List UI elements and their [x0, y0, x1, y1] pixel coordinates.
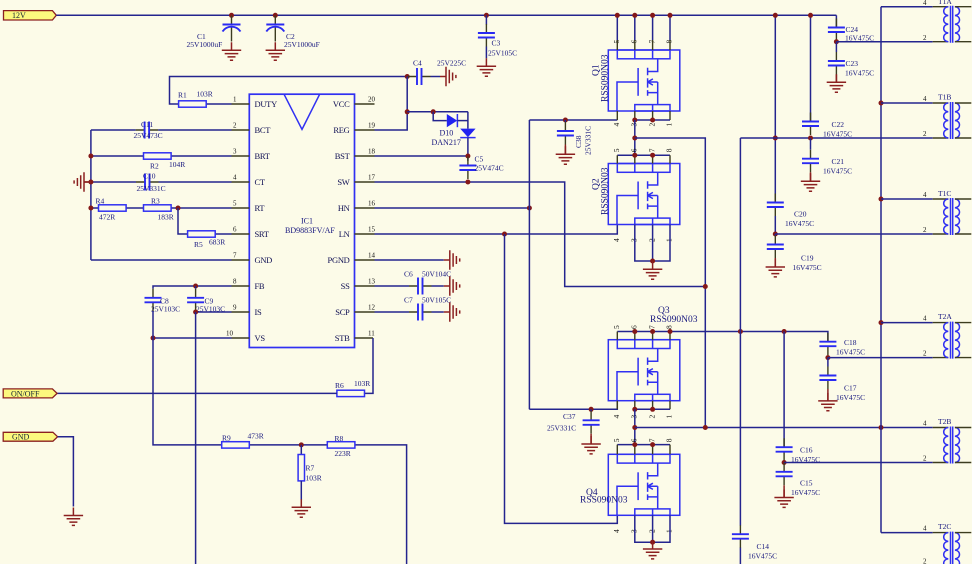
svg-text:18: 18 [368, 148, 376, 156]
svg-text:R3: R3 [151, 197, 160, 206]
svg-text:2: 2 [923, 130, 927, 138]
node Q3 pin2 [650, 407, 655, 412]
node SW/C5 [465, 180, 470, 185]
wire C14 bus column [739, 138, 741, 564]
svg-text:14: 14 [368, 252, 376, 260]
node VS/C8 [151, 336, 156, 341]
svg-text:R1: R1 [178, 91, 187, 100]
svg-text:6: 6 [630, 438, 639, 442]
svg-text:3: 3 [630, 238, 639, 242]
transformer T2C [933, 532, 972, 564]
capacitor C21 [810, 138, 812, 150]
ground CT left [74, 172, 90, 191]
svg-text:17: 17 [368, 174, 376, 182]
wire T1C pin2 line [775, 233, 932, 235]
node C37 [589, 407, 594, 412]
wire STB to R6 [364, 338, 373, 393]
svg-text:11: 11 [368, 330, 375, 338]
svg-text:7: 7 [233, 252, 237, 260]
svg-text:8: 8 [665, 325, 674, 329]
svg-text:FB: FB [255, 281, 265, 291]
node C20/C19 T1C feed [773, 232, 778, 237]
svg-text:R4: R4 [96, 197, 105, 206]
capacitor C19 [774, 234, 776, 236]
node BST [465, 154, 470, 159]
ground Q2 [643, 261, 662, 279]
svg-text:C11: C11 [141, 120, 153, 129]
svg-text:16V475C: 16V475C [836, 393, 865, 402]
node Q1 pin8 bus [668, 13, 673, 18]
wire T1A pin4 [881, 6, 933, 8]
transformer T1A [933, 6, 972, 43]
transistor Q3 RSS090N03 [608, 340, 680, 401]
svg-text:2: 2 [647, 123, 656, 127]
node Q3 drain C16 column [782, 329, 787, 334]
svg-text:10: 10 [226, 330, 234, 338]
ground C7 [444, 302, 460, 321]
svg-text:T2A: T2A [938, 312, 952, 321]
node bus A end [703, 425, 708, 430]
ground C6 [444, 276, 460, 295]
node D10 anode branch [431, 109, 436, 114]
node Q1 pin6 bus [632, 13, 637, 18]
IC left pin numbers [226, 96, 237, 338]
node SW wire joins bus A [703, 284, 708, 289]
node C20 phase [773, 136, 778, 141]
node Q1 pin7 bus [650, 13, 655, 18]
svg-text:16V475C: 16V475C [823, 130, 852, 139]
transistor Q4 RSS090N03 [608, 454, 680, 515]
svg-text:5: 5 [612, 325, 621, 329]
svg-text:4: 4 [233, 174, 237, 182]
svg-text:LN: LN [339, 229, 350, 239]
node Q1 pin5 bus [615, 13, 620, 18]
wire GND flag [58, 437, 74, 507]
svg-text:R8: R8 [335, 434, 344, 443]
svg-text:4: 4 [923, 0, 927, 7]
node C16/C15 T2B feed [782, 460, 787, 465]
svg-text:4: 4 [923, 95, 927, 103]
svg-text:BRT: BRT [255, 151, 271, 161]
svg-text:7: 7 [647, 438, 656, 442]
svg-text:25V103C: 25V103C [151, 305, 180, 314]
transistor Q2 RSS090N03 [608, 164, 680, 225]
node Q4 source [650, 540, 655, 545]
capacitor C1 [223, 16, 241, 42]
svg-text:25V473C: 25V473C [134, 131, 163, 140]
wire LN pin15 [375, 225, 618, 235]
ground PGND [444, 250, 460, 269]
wire D10 anode [433, 112, 468, 129]
transformer T1B [933, 102, 972, 139]
node HN bus [527, 206, 532, 211]
IC right pin names [328, 99, 351, 343]
svg-text:T2B: T2B [938, 417, 951, 426]
wire Q3 gate line [529, 401, 617, 410]
svg-text:4: 4 [612, 123, 621, 127]
wire Q1 top pins to bus [617, 15, 670, 40]
svg-text:C4: C4 [413, 59, 422, 68]
wire T2C pin4 [881, 532, 933, 534]
wire RT pin5 [91, 207, 232, 209]
resistor R5 [188, 231, 216, 237]
node Q4 pin7 [650, 442, 655, 447]
wire C16 column [783, 332, 785, 448]
svg-text:5: 5 [612, 438, 621, 442]
svg-text:12V: 12V [12, 11, 26, 20]
wire Q4 source bracket [635, 515, 670, 542]
svg-text:4: 4 [612, 529, 621, 533]
svg-text:1: 1 [665, 123, 674, 127]
svg-text:183R: 183R [158, 213, 174, 222]
wire Q2 source bracket [635, 225, 670, 262]
svg-text:4: 4 [923, 315, 927, 323]
node Q3 pin6 [632, 329, 637, 334]
svg-text:SW: SW [337, 177, 349, 187]
node T1C pin4 [879, 197, 884, 202]
node Q3 drain bus C14 [738, 329, 743, 334]
power flag GND [3, 432, 57, 441]
svg-text:25V1000uF: 25V1000uF [187, 40, 223, 49]
wire T transformer bus [880, 7, 882, 533]
capacitor C5 [459, 157, 476, 180]
svg-text:25V331C: 25V331C [584, 126, 593, 155]
wire midpoint to bus [635, 137, 706, 139]
diode D10a horizontal [447, 114, 468, 127]
wire Q2 top pins [617, 154, 670, 156]
wire C20 to C19 [774, 216, 776, 234]
wire Q3 top pins [617, 332, 828, 342]
svg-text:16V475C: 16V475C [748, 552, 777, 561]
svg-text:HN: HN [338, 203, 350, 213]
wire SW pin17 [375, 182, 706, 287]
node C20 top bus [773, 13, 778, 18]
svg-text:6: 6 [630, 148, 639, 152]
capacitor C22 [802, 113, 819, 136]
ground C15 [774, 490, 793, 508]
wire Q1 source bracket [635, 119, 670, 121]
capacitor C14 [732, 525, 749, 548]
ground Q4 [643, 541, 662, 559]
node C1 bus [229, 13, 234, 18]
wire left bias bus [90, 130, 92, 260]
resistor R4 [99, 205, 127, 211]
svg-text:C16: C16 [800, 446, 813, 455]
svg-text:7: 7 [647, 325, 656, 329]
IC left pin names [255, 99, 278, 343]
node C38 [563, 118, 568, 123]
resistor R9 [222, 442, 250, 448]
node IS/C9 [193, 310, 198, 315]
wire C20 column top [774, 15, 776, 202]
node Q1 pin3 [632, 118, 637, 123]
svg-text:2: 2 [923, 34, 927, 42]
svg-text:16V475C: 16V475C [845, 69, 874, 78]
svg-text:25V225C: 25V225C [437, 59, 466, 68]
ground C19 [766, 259, 785, 277]
svg-text:8: 8 [665, 438, 674, 442]
svg-text:6: 6 [630, 325, 639, 329]
node R1/C4/REG [405, 74, 410, 79]
svg-text:DAN217: DAN217 [432, 138, 461, 147]
svg-text:REG: REG [333, 125, 349, 135]
svg-text:16V475C: 16V475C [793, 263, 822, 272]
svg-text:4: 4 [923, 525, 927, 533]
ground GND flag [64, 508, 83, 526]
capacitor C18 [819, 333, 836, 356]
ground R7 [292, 499, 311, 517]
svg-text:5: 5 [233, 200, 237, 208]
node Q2 pin7 [650, 153, 655, 158]
svg-text:C15: C15 [800, 479, 813, 488]
node Q4 pin6 [632, 442, 637, 447]
wire Q1 gate [529, 119, 617, 121]
svg-text:1: 1 [233, 96, 237, 104]
capacitor C15 [783, 462, 785, 464]
svg-text:9: 9 [233, 304, 237, 312]
svg-text:3: 3 [630, 123, 639, 127]
wire CT pin4 [91, 181, 232, 183]
ground C21 [801, 173, 820, 191]
wire REG to D10 node [375, 77, 408, 131]
svg-text:2: 2 [647, 415, 656, 419]
svg-text:683R: 683R [209, 238, 225, 247]
node T2 bus [879, 425, 884, 430]
svg-text:2: 2 [647, 529, 656, 533]
wire DUTY net [170, 77, 408, 105]
svg-text:C7: C7 [404, 296, 413, 305]
node Q3 pin3 [632, 407, 637, 412]
IC right pin stubs 11-20 [355, 104, 375, 338]
node T1B pin4 [879, 101, 884, 106]
svg-text:R9: R9 [222, 434, 231, 443]
svg-text:BD9883FV/AF: BD9883FV/AF [285, 226, 335, 235]
node C22 mid [808, 136, 813, 141]
svg-text:6: 6 [233, 226, 237, 234]
svg-text:C22: C22 [832, 120, 845, 129]
svg-text:C21: C21 [832, 157, 845, 166]
svg-text:C3: C3 [492, 39, 501, 48]
diode D10b vertical [460, 129, 475, 138]
svg-text:C20: C20 [794, 210, 807, 219]
svg-text:ON/OFF: ON/OFF [11, 389, 40, 398]
svg-text:4: 4 [612, 238, 621, 242]
svg-text:CT: CT [255, 177, 266, 187]
wire HN gate bus [528, 120, 530, 409]
transformer T2B [933, 427, 972, 464]
wire Q1 bottom pins [617, 111, 670, 120]
wire D10 top [407, 111, 468, 113]
node FB/C9 [193, 284, 198, 289]
svg-text:473R: 473R [248, 432, 264, 441]
capacitor C16 [776, 438, 793, 461]
capacitor C6 [409, 278, 432, 295]
svg-text:C37: C37 [563, 412, 576, 421]
capacitor C20 [767, 194, 784, 217]
svg-text:5: 5 [612, 148, 621, 152]
ground C2 [266, 42, 285, 60]
svg-text:RSS090N03: RSS090N03 [580, 496, 628, 506]
node D10 top [405, 109, 410, 114]
power flag ON/OFF [3, 389, 57, 398]
svg-text:1: 1 [665, 238, 674, 242]
svg-text:4: 4 [612, 415, 621, 419]
node Q2 pin6 [632, 153, 637, 158]
node Q3 pin7 [650, 329, 655, 334]
wire T2A pin2 line [828, 357, 933, 359]
wire C24 column [835, 15, 837, 27]
svg-text:C18: C18 [844, 338, 857, 347]
wire R5 branch [178, 208, 232, 234]
svg-text:19: 19 [368, 122, 376, 130]
svg-text:R5: R5 [194, 240, 203, 249]
svg-text:6: 6 [630, 40, 639, 44]
wire R9/R8 line [249, 445, 406, 564]
svg-text:5: 5 [612, 40, 621, 44]
wire PGND pin14 [375, 259, 444, 261]
svg-text:25V474C: 25V474C [475, 164, 504, 173]
svg-text:7: 7 [647, 40, 656, 44]
node RT bus [88, 206, 93, 211]
svg-text:4: 4 [923, 420, 927, 428]
svg-text:25V331C: 25V331C [137, 184, 166, 193]
resistor R2 [144, 153, 172, 159]
node C3 bus [484, 13, 489, 18]
svg-text:103R: 103R [306, 474, 322, 483]
svg-text:T1C: T1C [938, 189, 951, 198]
node BRT bus [88, 154, 93, 159]
svg-text:C6: C6 [404, 270, 413, 279]
svg-text:25V105C: 25V105C [488, 49, 517, 58]
svg-text:D10: D10 [440, 129, 454, 138]
svg-text:2: 2 [923, 226, 927, 234]
wire T1 phase B line [740, 137, 932, 139]
svg-text:DUTY: DUTY [255, 99, 278, 109]
wire 12V top bus [56, 14, 836, 16]
wire T1B pin4 [881, 102, 933, 104]
svg-text:16V475C: 16V475C [836, 348, 865, 357]
node C22 top bus [808, 13, 813, 18]
resistor R7 [300, 445, 302, 455]
svg-text:3: 3 [630, 415, 639, 419]
svg-text:103R: 103R [197, 90, 213, 99]
svg-text:1: 1 [665, 415, 674, 419]
svg-text:2: 2 [233, 122, 237, 130]
node LN bus [502, 232, 507, 237]
svg-text:2: 2 [647, 238, 656, 242]
resistor R3 [144, 205, 172, 211]
wire FB pin8 [153, 286, 232, 289]
svg-text:2: 2 [923, 350, 927, 358]
svg-text:50V104C: 50V104C [422, 270, 451, 279]
svg-text:15: 15 [368, 226, 376, 234]
svg-text:T1B: T1B [938, 93, 951, 102]
node CT bus [88, 180, 93, 185]
svg-text:C38: C38 [574, 135, 583, 148]
wire IS pin9 [196, 311, 232, 313]
svg-text:SRT: SRT [255, 229, 270, 239]
svg-text:R6: R6 [335, 381, 344, 390]
svg-text:C19: C19 [801, 254, 814, 263]
node Q1 pin2 [650, 118, 655, 123]
svg-text:8: 8 [233, 278, 237, 286]
svg-text:20: 20 [368, 96, 376, 104]
wire BST pin18 [375, 155, 468, 157]
svg-text:BST: BST [335, 151, 351, 161]
svg-text:VCC: VCC [333, 99, 350, 109]
wire ON/OFF to R6 [57, 392, 337, 394]
resistor R1 [179, 101, 207, 107]
svg-text:8: 8 [665, 148, 674, 152]
capacitor C2 [266, 16, 284, 42]
svg-text:C5: C5 [475, 155, 484, 164]
svg-text:13: 13 [368, 278, 376, 286]
svg-text:16V475C: 16V475C [791, 488, 820, 497]
wire phase bus A [704, 138, 706, 428]
svg-text:RSS090N03: RSS090N03 [601, 167, 611, 215]
wire BCT pin2 [91, 129, 232, 131]
wire LN gate bus [505, 234, 618, 523]
svg-text:RSS090N03: RSS090N03 [601, 54, 611, 102]
resistor R8 [327, 442, 355, 448]
wire SCP pin12 [375, 311, 410, 313]
capacitor C4 [408, 68, 431, 85]
svg-text:T2C: T2C [938, 522, 951, 531]
svg-text:25V1000uF: 25V1000uF [284, 40, 320, 49]
svg-text:16: 16 [368, 200, 376, 208]
svg-text:223R: 223R [335, 449, 351, 458]
transformer T1C [933, 198, 972, 235]
svg-text:RSS090N03: RSS090N03 [650, 315, 698, 325]
IC right pin numbers [368, 96, 376, 338]
wire T1C pin4 [881, 198, 933, 200]
wire C9 column to bottom [195, 312, 197, 564]
svg-text:GND: GND [12, 433, 30, 442]
capacitor C38 [564, 120, 566, 122]
node R3/R5 [176, 206, 181, 211]
ground C38 [556, 146, 575, 164]
svg-text:3: 3 [233, 148, 237, 156]
svg-text:12: 12 [368, 304, 376, 312]
node C18/C17 T2A feed [825, 355, 830, 360]
capacitor C24 [828, 19, 845, 42]
svg-text:C14: C14 [757, 542, 770, 551]
svg-text:IC1: IC1 [301, 217, 313, 226]
wire Q3 source bracket [635, 408, 670, 410]
svg-text:SS: SS [341, 281, 350, 291]
ground C4 [440, 67, 456, 86]
svg-text:C23: C23 [846, 59, 859, 68]
node midpoint T1A branch [632, 136, 637, 141]
capacitor C11 [136, 122, 159, 139]
svg-text:IS: IS [255, 307, 263, 317]
svg-text:BCT: BCT [255, 125, 272, 135]
ground C3 [477, 58, 496, 76]
ground C37 [581, 436, 600, 454]
svg-text:1: 1 [665, 529, 674, 533]
svg-text:GND: GND [255, 255, 273, 265]
transistor Q1 RSS090N03 [608, 50, 680, 111]
transformer T2A [933, 322, 972, 359]
svg-text:PGND: PGND [328, 255, 350, 265]
wire Q3-Q4 midpoint [634, 409, 636, 444]
wire C22 column top [810, 15, 812, 121]
IC left pin stubs 1-10 [232, 104, 250, 338]
ground C23 [827, 74, 846, 92]
resistor R6 [337, 390, 365, 396]
node C24/C23 T1A feed [834, 39, 839, 44]
ground C1 [222, 42, 241, 60]
